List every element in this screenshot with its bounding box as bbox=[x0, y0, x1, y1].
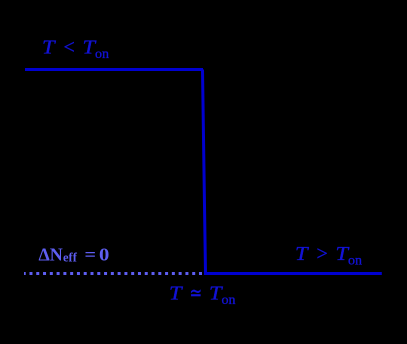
wire: dotted zero-level line (ΔNeff = 0) bbox=[24, 272, 202, 275]
svg-text:T>Ton: T>Ton bbox=[295, 243, 362, 268]
wire: steep transition line bbox=[203, 70, 206, 274]
wire: lower plateau line (T > Ton branch) bbox=[204, 272, 382, 275]
svg-text:T<Ton: T<Ton bbox=[42, 37, 109, 62]
wire: upper plateau line (T < Ton branch) bbox=[25, 68, 203, 71]
svg-text:T≃Ton: T≃Ton bbox=[169, 283, 236, 308]
svg-text:ΔNeff=0: ΔNeff=0 bbox=[39, 245, 110, 265]
